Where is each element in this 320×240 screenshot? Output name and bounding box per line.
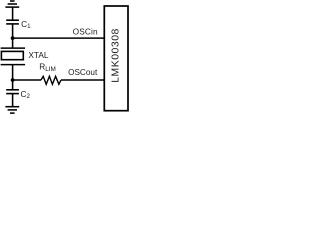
svg-text:C1: C1	[21, 19, 31, 30]
wire top ground to C1	[12, 7, 14, 20]
capacitor C2	[6, 90, 19, 94]
svg-text:RLIM: RLIM	[39, 61, 56, 72]
wire junction to resistor	[13, 79, 41, 81]
capacitor C1	[6, 20, 19, 24]
crystal XTAL	[1, 48, 26, 65]
wire resistor to OSCout pin	[61, 79, 105, 81]
wire C1 to crystal top	[12, 24, 14, 48]
node junction bottom	[11, 78, 15, 82]
wire crystal bottom to C2	[12, 65, 14, 90]
ground GND bottom	[5, 107, 19, 113]
resistor RLIM zigzag	[41, 76, 61, 84]
IC U1 LMK00308 box	[104, 6, 128, 111]
wire C2 to bottom ground	[12, 94, 14, 107]
svg-text:LMK00308: LMK00308	[110, 28, 121, 83]
svg-text:OSCin: OSCin	[73, 27, 98, 37]
wire OSCin net	[13, 37, 105, 39]
ground GND top (inverted, pointing up)	[5, 1, 19, 7]
svg-text:C2: C2	[21, 89, 31, 100]
svg-text:XTAL: XTAL	[28, 50, 49, 60]
svg-text:OSCout: OSCout	[68, 68, 98, 77]
node junction top	[11, 36, 15, 40]
